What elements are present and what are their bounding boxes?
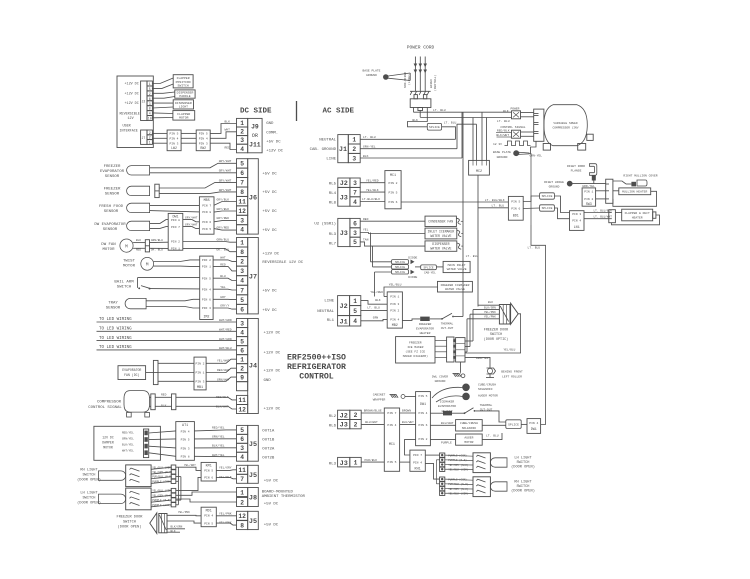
svg-text:REVERSIBLE 12V DC: REVERSIBLE 12V DC	[262, 261, 303, 265]
svg-text:3: 3	[240, 217, 244, 224]
svg-text:EVAPORATOR: EVAPORATOR	[122, 368, 141, 372]
connector RW2	[196, 130, 210, 151]
svg-text:FREEZER: FREEZER	[419, 323, 432, 326]
svg-text:RL8: RL8	[329, 201, 337, 205]
svg-text:J1: J1	[339, 146, 347, 154]
wires RH switch to terminals	[151, 467, 171, 469]
svg-text:CUT-OUT: CUT-OUT	[441, 327, 454, 330]
svg-text:PIN 5: PIN 5	[388, 191, 397, 194]
svg-text:PIN 4: PIN 4	[418, 412, 427, 415]
svg-text:BLK: BLK	[363, 155, 369, 158]
svg-text:MOTOR: MOTOR	[103, 446, 113, 450]
connector MC2	[469, 160, 490, 175]
svg-text:12V: 12V	[128, 117, 135, 121]
svg-text:SENSOR: SENSOR	[105, 175, 120, 179]
connector MB1	[194, 357, 206, 390]
svg-text:RIGHT MULLION COVER: RIGHT MULLION COVER	[623, 175, 657, 178]
svg-text:PIN 3: PIN 3	[181, 447, 190, 450]
svg-text:LT. BLU: LT. BLU	[466, 255, 479, 258]
connector BD1	[508, 196, 523, 220]
svg-text:BLK: BLK	[503, 110, 509, 113]
wires splices to LN1	[554, 196, 569, 213]
svg-text:LT. BLU: LT. BLU	[497, 120, 510, 123]
wires left of diode splices	[371, 261, 392, 263]
svg-text:+12V DC: +12V DC	[264, 408, 281, 412]
svg-text:1: 1	[149, 82, 151, 86]
wires damper motor to AT1	[149, 431, 176, 433]
svg-text:BASE PLATE: BASE PLATE	[493, 151, 511, 154]
svg-text:DWL COVER: DWL COVER	[432, 376, 448, 379]
svg-text:J5: J5	[249, 472, 257, 480]
wires LH strip to switch	[445, 455, 473, 456]
connector J5 bracket 2	[248, 465, 259, 483]
wire below compressor terminal box	[531, 141, 537, 153]
svg-text:WHT/RED: WHT/RED	[219, 328, 232, 332]
svg-text:PIN 5: PIN 5	[387, 461, 396, 464]
svg-text:SOLENOID: SOLENOID	[478, 388, 493, 391]
svg-text:YEL: YEL	[220, 286, 226, 289]
svg-text:RED: RED	[220, 263, 226, 266]
wires DW1 to MB5 pins 6 5	[183, 220, 200, 222]
inlet icemaker water valve box	[425, 228, 457, 239]
evaporator fan (DC) box	[118, 366, 146, 380]
svg-text:+5V DC: +5V DC	[262, 229, 277, 233]
svg-text:GRY/RED: GRY/RED	[217, 216, 230, 220]
svg-text:2: 2	[354, 412, 358, 419]
dispenser paddle box	[175, 90, 195, 98]
svg-text:PIN 6: PIN 6	[388, 201, 397, 204]
svg-text:12: 12	[238, 513, 246, 520]
divider line between DC and AC side	[296, 101, 298, 121]
svg-text:PIN 2: PIN 2	[195, 362, 204, 365]
wires evap fan to MB1	[158, 362, 194, 364]
svg-text:7: 7	[240, 476, 244, 483]
wires RH strip to switch	[445, 479, 473, 480]
flapper motor box	[173, 111, 195, 121]
svg-text:11: 11	[238, 198, 246, 205]
svg-text:3: 3	[240, 445, 244, 452]
svg-text:PIN 3: PIN 3	[572, 213, 581, 216]
connector SW3	[582, 188, 596, 206]
dispenser light box	[173, 100, 193, 109]
svg-text:RED/BLK: RED/BLK	[216, 395, 229, 399]
inline connector on freezer sensor	[155, 184, 159, 197]
svg-text:12 3V: 12 3V	[493, 143, 502, 146]
svg-text:BROWN: BROWN	[402, 410, 411, 413]
svg-text:7: 7	[240, 287, 244, 294]
connector J5 bracket	[248, 425, 259, 461]
svg-text:SPLICE: SPLICE	[395, 266, 405, 269]
svg-text:SPLICE: SPLICE	[542, 207, 553, 210]
svg-text:CONTROL: CONTROL	[299, 373, 333, 382]
svg-text:COMPRESSOR (INV: COMPRESSOR (INV	[552, 125, 578, 129]
svg-text:1: 1	[240, 240, 244, 247]
svg-text:OUT1A: OUT1A	[262, 429, 275, 433]
svg-text:REVERSIBLE: REVERSIBLE	[120, 112, 140, 116]
svg-text:(DOOR OPEN): (DOOR OPEN)	[511, 489, 535, 494]
svg-text:LT. BLU/BLK: LT. BLU/BLK	[594, 209, 613, 213]
svg-text:MOTOR: MOTOR	[123, 265, 136, 269]
svg-text:J7: J7	[142, 136, 146, 140]
svg-text:RED: RED	[136, 249, 141, 252]
terminal strip LH right-side switch	[440, 453, 445, 457]
inline connector pills on compressor signal wires	[151, 394, 155, 410]
svg-text:FLAPPER & DUCT: FLAPPER & DUCT	[625, 212, 650, 215]
svg-text:MOTOR: MOTOR	[102, 248, 115, 252]
svg-text:RH LIGHT: RH LIGHT	[80, 469, 98, 473]
svg-text:GROUND: GROUND	[366, 74, 377, 77]
purple bus wires between switch terminal strips	[177, 467, 179, 505]
svg-text:BLK: BLK	[136, 239, 141, 242]
svg-text:PIN 6: PIN 6	[202, 221, 211, 224]
svg-text:FREEZER: FREEZER	[409, 341, 422, 344]
svg-text:DW1: DW1	[420, 403, 426, 407]
flapper heater loop	[612, 215, 660, 225]
svg-text:SWITCH: SWITCH	[83, 474, 96, 478]
svg-text:WHT/YEL: WHT/YEL	[122, 449, 134, 453]
svg-text:1: 1	[353, 298, 357, 305]
svg-text:12V DC: 12V DC	[102, 436, 114, 440]
svg-text:MC1: MC1	[390, 174, 396, 178]
svg-text:GRY/WHT: GRY/WHT	[185, 222, 198, 226]
compressor terminal box	[534, 109, 544, 141]
splice to dw1 pin4 box	[506, 420, 521, 429]
svg-text:RL2: RL2	[329, 415, 337, 419]
svg-text:AT1: AT1	[182, 424, 188, 428]
svg-text:J2: J2	[340, 303, 348, 311]
RH light switch right side	[473, 477, 490, 497]
svg-text:8: 8	[240, 189, 244, 196]
svg-text:PIN 1: PIN 1	[171, 247, 180, 250]
svg-text:5: 5	[353, 308, 357, 315]
svg-text:+12V DC: +12V DC	[262, 252, 279, 256]
svg-text:BLK/YEL: BLK/YEL	[212, 444, 225, 448]
svg-text:BLK: BLK	[171, 530, 176, 533]
svg-text:SPLICE: SPLICE	[395, 261, 405, 264]
svg-text:SWITCH: SWITCH	[83, 497, 96, 501]
svg-text:+12V DC: +12V DC	[264, 332, 281, 336]
svg-text:SPLICE: SPLICE	[424, 267, 434, 270]
svg-text:12: 12	[238, 208, 246, 215]
svg-text:SOLENOID: SOLENOID	[462, 427, 477, 430]
RH light switch (door open)	[99, 471, 126, 480]
long wire MC1 pin6 to BD1 pin5	[401, 201, 508, 203]
svg-text:PIN 4: PIN 4	[204, 515, 213, 518]
svg-text:DIODE: DIODE	[408, 276, 417, 279]
svg-text:U2 (SSR1): U2 (SSR1)	[314, 222, 336, 227]
svg-text:YEL/RED: YEL/RED	[366, 178, 379, 182]
svg-text:GRY/BLK: GRY/BLK	[217, 197, 230, 201]
svg-text:YEL/PNK: YEL/PNK	[219, 511, 232, 515]
svg-text:LINE: LINE	[326, 158, 336, 162]
svg-text:FREEZER: FREEZER	[104, 187, 121, 191]
svg-text:GRY/BLK: GRY/BLK	[217, 207, 230, 211]
svg-text:PIN 5: PIN 5	[511, 200, 520, 203]
connector J8 pins 1 2	[237, 488, 248, 497]
svg-text:PIN 4: PIN 4	[572, 220, 581, 223]
svg-text:LT. BLU: LT. BLU	[486, 434, 499, 437]
svg-text:6: 6	[149, 97, 151, 101]
svg-text:MOTOR: MOTOR	[464, 441, 473, 444]
svg-text:YEL/PNK: YEL/PNK	[178, 510, 190, 514]
svg-text:LT. BLU: LT. BLU	[367, 306, 380, 309]
svg-text:PIN 4: PIN 4	[387, 424, 396, 427]
svg-text:(DOOR OPEN): (DOOR OPEN)	[77, 501, 101, 506]
svg-text:RL1: RL1	[327, 319, 335, 323]
svg-text:1: 1	[149, 141, 151, 145]
wires from control signal connector to left	[496, 132, 512, 134]
svg-text:J4: J4	[249, 363, 257, 371]
svg-text:PIN 3: PIN 3	[202, 307, 211, 310]
svg-text:THERMAL: THERMAL	[441, 322, 454, 325]
connector J8 bracket	[248, 488, 259, 507]
svg-text:GRN-YEL: GRN-YEL	[363, 145, 376, 148]
wires from user interface to dispenser paddle	[152, 92, 174, 93]
svg-text:6: 6	[353, 220, 357, 227]
svg-text:RW2: RW2	[200, 146, 206, 150]
svg-text:AMBIENT THERMISTOR: AMBIENT THERMISTOR	[262, 495, 306, 499]
svg-text:PIN 1: PIN 1	[195, 372, 204, 375]
svg-text:GND: GND	[264, 379, 272, 383]
svg-text:PIN 4: PIN 4	[202, 288, 211, 291]
svg-text:RED: RED	[225, 147, 231, 150]
svg-text:GRY/WHT: GRY/WHT	[219, 188, 232, 192]
connector LW2	[167, 130, 181, 151]
svg-text:VARIABLE SPEED: VARIABLE SPEED	[553, 122, 578, 125]
wires icemaker connector upward and GRN/YEL	[465, 340, 473, 342]
connector J9 OR J11 bracket	[248, 118, 262, 152]
svg-text:MAKER DIAGRAM): MAKER DIAGRAM)	[403, 354, 428, 358]
freezer door optic switch symbol	[499, 305, 510, 325]
svg-text:PIN 8: PIN 8	[202, 211, 211, 214]
svg-text:CONTROL SIGNAL: CONTROL SIGNAL	[500, 126, 525, 129]
svg-text:WIRED: WIRED	[430, 79, 433, 88]
svg-text:GND: GND	[266, 122, 274, 126]
svg-text:(NEUTRAL): (NEUTRAL)	[433, 75, 437, 91]
svg-text:11: 11	[238, 467, 246, 474]
svg-text:POWER CORD: POWER CORD	[407, 45, 435, 51]
svg-text:J3: J3	[340, 230, 348, 238]
svg-text:FREEZER ICEMAKER: FREEZER ICEMAKER	[441, 284, 470, 287]
svg-text:DISPENSER: DISPENSER	[432, 242, 449, 246]
svg-text:WATER VALVE: WATER VALVE	[430, 246, 451, 250]
svg-text:INLET ICEMAKER: INLET ICEMAKER	[428, 229, 455, 233]
svg-text:J3: J3	[340, 460, 348, 468]
svg-text:2: 2	[240, 499, 244, 506]
condenser fan box	[425, 216, 456, 226]
terminal strip RH right-side switch	[440, 477, 445, 481]
vertical feeders to MC2 and J1	[457, 124, 477, 149]
svg-text:4: 4	[240, 329, 244, 336]
svg-text:TWIST: TWIST	[123, 260, 136, 264]
connector MB2	[387, 292, 402, 328]
svg-text:HEATER: HEATER	[632, 216, 643, 219]
svg-text:LT. BLU: LT. BLU	[433, 109, 446, 112]
svg-text:BLK: BLK	[161, 404, 167, 407]
svg-text:OR: OR	[252, 133, 258, 139]
svg-text:PIN 6: PIN 6	[418, 424, 427, 427]
compressor feet	[543, 144, 550, 151]
svg-text:M: M	[146, 263, 149, 268]
svg-text:GRY/WHT: GRY/WHT	[185, 215, 198, 219]
wires SW3 left	[567, 184, 583, 191]
auger motor box	[456, 434, 483, 445]
svg-text:PIN 5: PIN 5	[202, 228, 211, 231]
12V DC damper motor box	[94, 426, 160, 460]
svg-text:GRY/WHT: GRY/WHT	[219, 169, 232, 173]
svg-text:GROUND: GROUND	[549, 185, 560, 188]
svg-text:RH LIGHT: RH LIGHT	[514, 480, 532, 484]
svg-text:RH1: RH1	[415, 467, 421, 471]
svg-text:J6: J6	[249, 194, 257, 202]
svg-text:YEL/GRY: YEL/GRY	[219, 466, 232, 470]
svg-text:RIGHT DOOR: RIGHT DOOR	[567, 165, 585, 168]
svg-text:WATER VALVE: WATER VALVE	[445, 288, 465, 291]
svg-text:LT. BLU/BLK: LT. BLU/BLK	[485, 198, 505, 202]
connector MC1 top	[385, 171, 401, 209]
svg-text:CAB. GROUND: CAB. GROUND	[310, 148, 337, 152]
svg-text:7: 7	[353, 189, 357, 196]
svg-text:+5V DC: +5V DC	[264, 503, 279, 507]
svg-text:YEL: YEL	[363, 229, 369, 232]
connector LN1	[570, 211, 585, 231]
svg-text:PIN 1: PIN 1	[584, 190, 593, 193]
svg-text:LW2: LW2	[171, 146, 177, 150]
svg-text:PIN 7: PIN 7	[171, 226, 180, 229]
wire MC1 pin5 to RH1 pin4	[400, 461, 410, 463]
wires from user interface to flapper motor	[152, 112, 173, 115]
svg-text:COMPRESSOR: COMPRESSOR	[97, 401, 122, 405]
svg-text:GRN: GRN	[373, 317, 379, 320]
svg-text:5: 5	[240, 297, 244, 304]
svg-text:4: 4	[240, 146, 244, 153]
svg-text:3: 3	[149, 102, 151, 106]
freezer icemaker water valve box	[438, 281, 473, 292]
svg-text:DW FAN: DW FAN	[101, 243, 116, 247]
svg-text:PIN 8: PIN 8	[171, 219, 180, 222]
svg-text:BLK: BLK	[375, 299, 381, 302]
svg-text:DW EVAPORATOR: DW EVAPORATOR	[94, 223, 126, 227]
splices right of BD1	[540, 193, 555, 199]
wires from user interface to flapper position switch	[152, 78, 173, 84]
connector DW1 bottom	[416, 392, 431, 446]
svg-text:OUT1B: OUT1B	[262, 438, 275, 442]
svg-text:PIN 5: PIN 5	[199, 132, 208, 135]
svg-text:YEL/BLK: YEL/BLK	[219, 475, 232, 479]
svg-text:DK. BLU: DK. BLU	[151, 249, 163, 252]
svg-text:8: 8	[149, 107, 151, 111]
svg-text:(DOOR OPEN): (DOOR OPEN)	[77, 478, 101, 483]
freezer evaporator heater resistor	[420, 317, 430, 321]
svg-text:8: 8	[240, 522, 244, 529]
connector MC1 bottom	[384, 408, 399, 471]
svg-text:PIN 7: PIN 7	[413, 454, 422, 457]
terminal strip RH switch	[171, 465, 176, 469]
svg-text:5: 5	[240, 338, 244, 345]
connector J4 pin column	[237, 319, 248, 328]
svg-text:BLU: BLU	[220, 275, 226, 278]
svg-text:1: 1	[352, 137, 356, 144]
svg-text:FRESH FOOD: FRESH FOOD	[99, 205, 124, 209]
svg-text:1: 1	[240, 489, 244, 496]
connector J6 bracket	[248, 159, 259, 234]
svg-text:(DOOR OPEN): (DOOR OPEN)	[118, 525, 142, 530]
svg-text:3: 3	[240, 320, 244, 327]
svg-text:WRAPPER: WRAPPER	[373, 398, 386, 401]
svg-text:PIN 5: PIN 5	[418, 395, 427, 398]
svg-text:FAN (DC): FAN (DC)	[124, 373, 139, 377]
connector J5 light-switch pins 11 7	[237, 465, 248, 474]
svg-text:EVAPORATOR: EVAPORATOR	[438, 405, 456, 408]
power plug block	[410, 99, 431, 108]
connector J9/J11 pin column pins 1-4	[237, 118, 248, 127]
svg-text:RED: RED	[363, 218, 369, 221]
damper motor pin header	[144, 429, 149, 458]
svg-text:LIGHT: LIGHT	[179, 105, 188, 109]
svg-text:8: 8	[240, 249, 244, 256]
svg-text:BLK/GRN: BLK/GRN	[171, 525, 183, 529]
svg-text:2: 2	[352, 146, 356, 153]
svg-text:ICEMAKER: ICEMAKER	[440, 401, 455, 404]
svg-text:M: M	[125, 244, 128, 249]
svg-text:1: 1	[240, 120, 244, 127]
svg-text:AUGER MOTOR: AUGER MOTOR	[478, 394, 498, 397]
svg-text:BD1: BD1	[513, 214, 519, 218]
terminal bar under power cord	[410, 90, 431, 92]
svg-text:CONDENSER FAN: CONDENSER FAN	[428, 219, 453, 223]
svg-text:GRN-YEL: GRN-YEL	[530, 155, 543, 158]
connector PIN4/DW1 right	[527, 419, 541, 434]
svg-text:PUR/BLK: PUR/BLK	[365, 458, 378, 462]
wires user interface J7 to LW2	[152, 132, 167, 134]
svg-text:+5V DC: +5V DC	[264, 480, 279, 484]
svg-text:+12V DC: +12V DC	[266, 150, 283, 154]
connector MB5	[199, 197, 214, 234]
svg-text:EVAPORATOR: EVAPORATOR	[416, 327, 434, 330]
connector J7 pin strip on user interface	[141, 130, 147, 144]
svg-text:PIN 4: PIN 4	[199, 137, 208, 140]
svg-text:FREEZER DOOR: FREEZER DOOR	[117, 516, 144, 520]
svg-text:GRY/WHT: GRY/WHT	[219, 159, 232, 163]
svg-text:COMM.: COMM.	[266, 131, 278, 135]
svg-text:PIN 1: PIN 1	[390, 296, 399, 299]
svg-text:MAIN INLET: MAIN INLET	[448, 264, 466, 267]
svg-text:2: 2	[354, 421, 358, 428]
svg-text:3: 3	[353, 180, 357, 187]
svg-text:SPLICE: SPLICE	[429, 126, 440, 129]
svg-text:PIN 2: PIN 2	[418, 438, 427, 441]
connector J5 damper pin column	[237, 425, 248, 434]
svg-text:+5V DC: +5V DC	[262, 210, 277, 214]
svg-text:TRAY: TRAY	[108, 301, 118, 305]
wires tray sensor to IM2 pins 6 3	[146, 299, 200, 301]
svg-text:LT. BLU/WHT: LT. BLU/WHT	[594, 215, 613, 219]
svg-text:FREEZER: FREEZER	[104, 165, 121, 169]
svg-text:PADDLE: PADDLE	[179, 94, 190, 98]
power cord wires with arrows	[414, 57, 416, 92]
svg-text:LT. BLU: LT. BLU	[492, 205, 505, 208]
svg-text:LINE: LINE	[324, 300, 334, 304]
svg-text:YEL/BLK: YEL/BLK	[366, 188, 379, 192]
svg-text:LT. BLU: LT. BLU	[444, 121, 457, 124]
svg-text:J5: J5	[249, 441, 257, 449]
connector J5 bracket 3	[248, 511, 259, 529]
svg-text:CAB-YEL: CAB-YEL	[424, 272, 436, 275]
svg-text:PIN 3: PIN 3	[195, 380, 204, 383]
wire bus right of valve boxes LT. BLU	[462, 112, 464, 316]
svg-text:RIGHT HINGE: RIGHT HINGE	[544, 181, 564, 184]
svg-text:GRY/WHT: GRY/WHT	[219, 178, 232, 182]
